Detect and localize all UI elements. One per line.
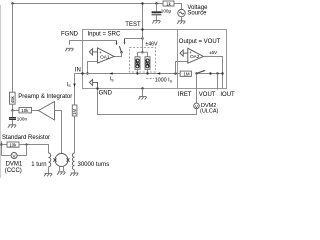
capacitor C 100u [152,4,172,21]
wire coil to ground [48,167,50,174]
node GND terminal [96,87,98,89]
svg-text:1 turn: 1 turn [31,162,46,168]
wire 10k to preamp apex [32,110,39,112]
wire section divider [177,30,179,89]
node chassis ground tap [141,87,143,89]
svg-text:Standard Resistor: Standard Resistor [2,135,50,141]
ground (30000-turn) [70,173,78,176]
node TEST branch [141,37,143,39]
switch contact left (SRC) [116,41,118,44]
current arrow Is (IN rail) [110,72,113,75]
node std-res left corner [0,143,2,145]
node winding A return [136,72,138,74]
wire 1k to source [174,4,182,10]
wire TEST contact feed [125,38,143,40]
wire preamp output right then down to SQUID [55,111,62,154]
box main ULCA outline [83,30,227,89]
svg-text:1k: 1k [166,1,171,6]
wire IN rail [75,73,223,75]
node winding feed split [141,51,143,53]
wire OA2 output [204,57,223,89]
wire DVM1 left leg [2,155,12,157]
node switch pivot (IRET) [195,72,197,74]
wire IRET drop to DVM2 [196,74,198,104]
wire TEST vertical [142,4,144,53]
ground (box common) [138,97,146,100]
ground (100n) [8,125,16,128]
wire top rail from corner to 1k [13,3,164,5]
wire junction to 10k [13,110,20,112]
current arrow Is (left line) [73,84,76,87]
ground (FGND) [65,48,73,51]
svg-text:(ULCA): (ULCA) [200,109,219,115]
wire winding bottoms to IN rail [138,69,148,73]
svg-text:IS: IS [110,76,115,82]
leader dashes 1000 Is [146,78,154,80]
source V1 (voltage source) [178,9,185,16]
node VOUT tap [216,72,218,74]
switch blade output [197,71,204,74]
svg-text:IN: IN [75,68,81,74]
switch blade OA1 [119,46,121,52]
node blade pivot [120,51,122,53]
node IN terminal [81,72,83,74]
current arrow 1000 Is [157,72,160,75]
wire left vertical drop [12,4,14,93]
svg-text:Output = VOUT: Output = VOUT [179,39,221,45]
wire 1M feed (IN wire down to 30000-turn coil) [74,74,76,106]
svg-text:±5V: ±5V [209,50,217,55]
node winding B return [146,72,148,74]
svg-text:OA1: OA1 [100,54,110,59]
wire chassis ground stub [142,89,144,97]
resistor R 45k (vertical) [10,92,16,104]
ground (1-turn) [44,173,52,176]
resistor 1k [163,1,174,6]
ground (100u) [152,21,160,24]
svg-text:100µ: 100µ [161,8,172,13]
wire resistor to junction [12,104,14,117]
resistor 10k (preamp input) [19,108,32,114]
svg-text:IS: IS [67,82,72,88]
port arrow input OA2 [180,50,188,56]
op-amp OA2 [188,48,204,63]
svg-text:1000 IS: 1000 IS [155,78,173,84]
ground (SQUID) [57,172,65,175]
port arrow input OA1 [89,49,97,55]
svg-text:+: + [99,50,102,55]
wire VOUT drop [217,74,219,90]
wire DVM2 low side to GND rail [98,89,197,115]
svg-text:IOUT: IOUT [220,92,235,98]
voltmeter DVM1 [11,153,17,159]
svg-text:GND: GND [99,90,113,96]
node TEST box-edge crossing [141,28,143,30]
box cryostat (dashed) [130,48,156,73]
resistor 10k standard [7,142,19,148]
node preamp input junction [11,109,13,111]
node corner top-left [11,2,13,4]
wire SQUID legs [60,166,64,171]
op-amp OA1 [98,48,115,63]
node switch contact [209,72,211,74]
page left edge line [0,5,2,178]
svg-text:IRET: IRET [178,92,192,98]
svg-text:+: + [189,50,192,55]
svg-text:DVM1: DVM1 [6,162,23,168]
resistor 1M (vertical) [72,105,77,116]
ground (source) [177,21,185,24]
capacitor C 100n [9,111,27,125]
node TEST top [141,2,143,4]
wire 1M to coil [74,116,76,153]
port arrow GND [89,79,97,88]
winding W2 (ratio winding B) [145,57,150,70]
svg-text:10k: 10k [21,108,29,113]
wire std-res left stub [1,141,3,155]
node feedback tap [86,72,88,74]
svg-text:(CCC): (CCC) [5,168,22,174]
wire OA2 feedback [176,62,188,74]
inductor 30000-turn winding [72,153,74,170]
resistor 1M (output) [180,71,191,77]
wire stub to 10k std [2,144,8,146]
wire source to ground [181,17,183,21]
svg-text:Source: Source [187,11,207,17]
svg-text:45k: 45k [10,95,15,103]
svg-text:VOUT: VOUT [199,92,216,98]
wire winding T-split [138,52,148,57]
svg-text:OA2: OA2 [190,54,200,59]
svg-text:30000 turns: 30000 turns [78,162,110,168]
wire DVM1 right leg [17,145,26,156]
node OA2 output / IOUT junction [221,72,223,74]
switch contact right (TEST) [124,39,126,43]
node DVM1 tap [25,143,27,145]
SQUID sensor [53,154,69,167]
svg-text:V: V [195,104,198,109]
wire 10k std to 1-turn coil [19,145,49,154]
winding W1 (ratio winding A) [135,57,140,70]
wire FGND lead [70,41,117,45]
svg-text:Input = SRC: Input = SRC [88,32,122,38]
svg-text:10k: 10k [9,143,17,148]
svg-text:100n: 100n [17,117,28,122]
voltmeter DVM2 [194,103,200,109]
svg-text:TEST: TEST [125,22,141,28]
wire 30000 coil to ground [74,170,76,173]
svg-text:1M: 1M [183,72,189,77]
wire pivot to apex wire [114,52,122,56]
svg-text:FGND: FGND [61,31,79,37]
node OA2 feedback tap [174,72,176,74]
svg-text:1M: 1M [72,108,77,114]
svg-text:±46V: ±46V [145,41,158,47]
op-amp preamp & integrator (left-pointing triangle) [39,102,55,121]
inductor 1-turn winding [49,153,51,167]
wire OA1 feedback [88,62,98,74]
svg-text:Preamp & Integrator: Preamp & Integrator [18,94,72,100]
node 100uF tap [155,2,157,4]
